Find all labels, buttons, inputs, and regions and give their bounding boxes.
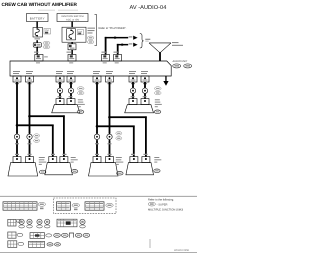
audio unit (radio) box [10,61,171,76]
legend row 1 [8,219,21,226]
bottom edge connector RR SP LH + [56,76,64,82]
legend row 2 [8,232,23,238]
branch wire to tweeter LH left [17,124,54,126]
pin label above connector A [34,52,39,53]
svg-text:MULTIPLE JUNCTION (SMJ): MULTIPLE JUNCTION (SMJ) [148,209,183,212]
connector table M44 [57,202,71,210]
front door speaker RH label [116,157,122,158]
rear door speaker LH [52,99,80,113]
rear door speaker RH label [155,99,160,100]
svg-text:Refer to the following.: Refer to the following. [148,199,174,202]
front door speaker LH [8,157,38,176]
battery box [27,14,49,22]
bullet connectors rear LH [57,86,62,98]
wire 1 tag and arrow [129,36,133,37]
pin labels under bottom edge [15,83,19,84]
wire color label W/L [35,38,41,39]
connector id beside box A [44,56,48,57]
fold mark [149,239,152,248]
svg-text:CREW CAB WITHOUT AMPLIFIER: CREW CAB WITHOUT AMPLIFIER [2,2,78,7]
wire 2 tag and arrow [129,43,133,44]
FR SP RH labels inside box [93,71,100,72]
legend row 3 [8,241,24,248]
bottom edge connector FR SP RH - [106,76,114,82]
bullet connectors front LH wires [14,132,19,156]
wire FR SP RH + [96,82,98,133]
svg-text:BATTERY: BATTERY [30,16,45,20]
junction FR RH + [96,125,99,128]
wire FR SP LH + [16,82,18,133]
ground [163,76,168,86]
pillar tweeter RH [126,157,154,175]
pin labels above speaker connectors [15,154,19,155]
fuse 15A (battery) [33,28,51,38]
pillar tweeter RH label [154,157,159,158]
connector D on audio unit (ILL-) [114,55,122,62]
bullet ovals rear LH [77,87,84,91]
branch wire to tweeter RH left [97,125,135,127]
RR SP RH labels inside box [129,71,136,72]
fuse block ovals M4 M5 [87,36,93,40]
joint connector (battery feed) [33,40,41,54]
M44 oval [72,203,79,207]
svg-text:AV -AUDIO-04: AV -AUDIO-04 [130,5,167,11]
svg-text:Refer to "PG-POWER".: Refer to "PG-POWER". [99,27,127,30]
M33 oval [106,203,113,207]
junction FR LH + [16,124,19,127]
bullet ovals front RH [116,132,122,136]
connector ovals E101 [43,41,50,45]
branch wire to tweeter RH right [110,116,147,118]
fuse 10A (ACC) [67,29,84,40]
wire RR SP LH + [59,82,61,88]
svg-text:ACC or ON: ACC or ON [66,18,79,21]
connector table M43 [3,202,37,210]
M43 oval and color [38,202,45,206]
wire RR SP LH - [70,82,72,88]
illumination wire 1 (from PG-POWER) [105,36,129,54]
rod antenna [149,43,171,61]
bottom edge connector RR SP RH + [129,76,137,82]
rear door speaker LH label [78,99,83,100]
bottom edge connector FR SP LH - [26,76,34,82]
pin labels below rear bullets [58,96,62,97]
pin numbers under top edge [36,62,40,63]
rod antenna label [172,42,179,43]
bullet connectors rear RH [130,86,135,98]
bottom edge connector RR SP LH - [67,76,75,82]
pin label M6 [67,52,72,53]
connector A on audio unit (battery) [35,55,43,62]
brace to next page [140,34,144,49]
FR SP LH labels inside box [13,71,20,72]
junction FR LH - [28,115,31,118]
connector B on audio unit (ACC) [68,55,76,62]
pin labels above connectors C D [102,52,107,53]
legend separator rule [0,195,197,198]
pin labels below front bullets [15,143,19,144]
front door speaker LH label [39,157,45,158]
bullet connectors front RH wires [94,132,99,156]
wire FR SP LH - [29,82,31,133]
bullet ovals rear RH [155,87,162,91]
RR SP LH labels inside box [56,71,63,72]
bottom edge connector RR SP RH - [141,76,149,82]
branch wire to tweeter LH right [30,115,65,117]
svg-text:AUDIO UNIT: AUDIO UNIT [173,60,188,63]
dashed group box [54,198,117,214]
pillar tweeter LH label [71,157,76,158]
faint header rule [38,9,55,12]
illumination wire 2 (from PG-POWER) [117,43,128,54]
fuse block label [88,28,96,29]
wire ignition to fuse block [71,22,73,28]
pillar tweeter LH [45,157,73,175]
bottom edge connector FR SP LH + [13,76,21,82]
front door speaker RH [89,157,119,176]
brace note [145,39,150,40]
bottom rule [0,251,197,254]
bullet ovals M302 M303 [34,134,40,138]
svg-text:- SUPER: - SUPER [157,204,168,207]
svg-text:WKWA2435E: WKWA2435E [174,249,190,252]
fuse block J/B box [62,27,86,42]
wire battery to fuse [36,22,38,28]
connector table M33 [85,202,104,210]
wire FR SP RH - [109,82,111,133]
connector below fuse block [68,42,76,54]
rear door speaker RH [125,99,154,113]
wire RR SP RH + [132,82,134,88]
wire RR SP RH - [144,82,146,88]
bottom edge connector FR SP RH + [93,76,101,82]
ignition switch box [57,14,88,22]
junction FR RH - [108,116,111,119]
bracket for refer note [95,15,97,46]
connector C on audio unit (ILL+) [102,55,110,62]
